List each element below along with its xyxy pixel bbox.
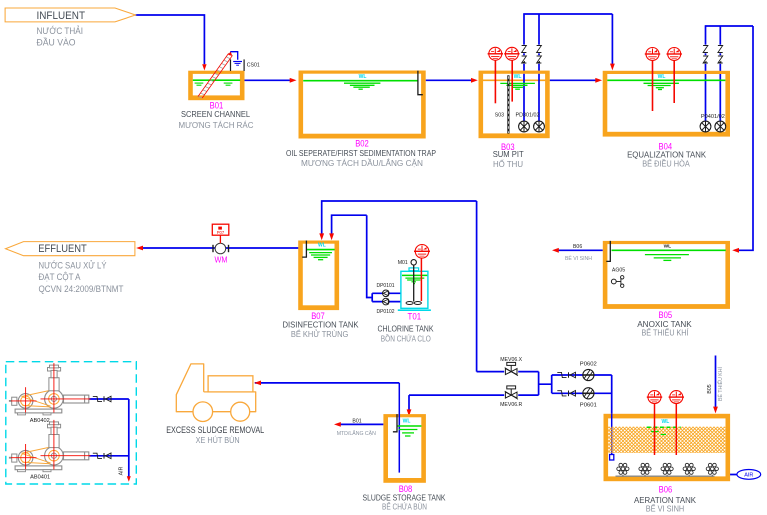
svg-text:M01: M01 <box>398 260 408 266</box>
svg-text:NƯỚC SAU XỬ LÝ: NƯỚC SAU XỬ LÝ <box>39 259 108 271</box>
svg-text:WM: WM <box>215 255 228 264</box>
svg-text:BỂ THIẾU KHÍ: BỂ THIẾU KHÍ <box>717 366 724 400</box>
svg-text:P0401/02: P0401/02 <box>701 114 725 120</box>
svg-text:MTD/LẮNG CẶN: MTD/LẮNG CẶN <box>337 429 376 437</box>
svg-text:ĐẦU VÀO: ĐẦU VÀO <box>37 38 76 49</box>
svg-text:BỂ VI SINH: BỂ VI SINH <box>646 503 685 514</box>
svg-text:MEV06.X: MEV06.X <box>500 357 522 363</box>
svg-text:BỂ KHỬ TRÙNG: BỂ KHỬ TRÙNG <box>291 328 349 339</box>
svg-text:BỂ CHỨA BÙN: BỂ CHỨA BÙN <box>382 500 427 511</box>
svg-text:WL: WL <box>403 418 411 424</box>
svg-text:B06: B06 <box>659 484 673 495</box>
svg-text:P0602: P0602 <box>580 361 597 367</box>
svg-text:MEV06.R: MEV06.R <box>500 402 522 408</box>
svg-text:B01: B01 <box>352 418 361 424</box>
svg-text:B06: B06 <box>573 244 582 250</box>
svg-text:NƯỚC THẢI: NƯỚC THẢI <box>37 25 84 37</box>
svg-text:AG05: AG05 <box>612 268 625 274</box>
svg-text:MƯƠNG TÁCH DẦU/LẮNG CẶN: MƯƠNG TÁCH DẦU/LẮNG CẶN <box>301 158 423 168</box>
svg-text:P0601: P0601 <box>580 403 597 409</box>
svg-text:XE HÚT BÙN: XE HÚT BÙN <box>196 435 240 445</box>
svg-text:BỒN CHỨA CLO: BỒN CHỨA CLO <box>381 332 431 343</box>
svg-text:ĐẠT CỘT A: ĐẠT CỘT A <box>39 272 82 283</box>
svg-text:AB0402: AB0402 <box>30 418 50 424</box>
svg-text:S03: S03 <box>495 113 504 119</box>
svg-text:QCVN 24:2009/BTNMT: QCVN 24:2009/BTNMT <box>39 284 124 295</box>
svg-text:SCREEN CHANNEL: SCREEN CHANNEL <box>181 110 251 119</box>
svg-text:WL: WL <box>514 74 522 80</box>
svg-text:DP0102: DP0102 <box>377 309 395 315</box>
svg-text:WL: WL <box>662 419 670 425</box>
svg-text:P07: P07 <box>217 230 225 235</box>
svg-text:BỂ THIẾU KHÍ: BỂ THIẾU KHÍ <box>642 327 690 338</box>
svg-text:PD301/02: PD301/02 <box>516 113 540 119</box>
svg-text:WL: WL <box>318 242 326 248</box>
svg-text:CS01: CS01 <box>247 62 260 68</box>
svg-text:OIL SEPERATE/FIRST SEDIMENTATI: OIL SEPERATE/FIRST SEDIMENTATION TRAP <box>286 149 436 158</box>
svg-text:AIR: AIR <box>119 466 125 475</box>
svg-text:T01: T01 <box>408 311 422 322</box>
svg-text:B02: B02 <box>355 138 369 149</box>
svg-text:INFLUENT: INFLUENT <box>37 10 86 22</box>
svg-text:DP0101: DP0101 <box>377 283 395 289</box>
svg-text:BỂ ĐIỀU HÒA: BỂ ĐIỀU HÒA <box>642 157 690 168</box>
svg-text:AIR: AIR <box>744 473 753 479</box>
svg-text:BỂ VI SINH: BỂ VI SINH <box>565 255 592 262</box>
svg-text:WL: WL <box>664 244 672 250</box>
svg-text:EFFLUENT: EFFLUENT <box>38 243 87 255</box>
svg-text:WL: WL <box>658 74 666 80</box>
svg-text:AB0401: AB0401 <box>30 475 50 481</box>
svg-text:WL: WL <box>359 74 367 80</box>
svg-text:B05: B05 <box>707 384 713 393</box>
svg-text:MƯƠNG TÁCH RÁC: MƯƠNG TÁCH RÁC <box>179 120 254 130</box>
svg-text:HỐ THU: HỐ THU <box>493 158 523 169</box>
